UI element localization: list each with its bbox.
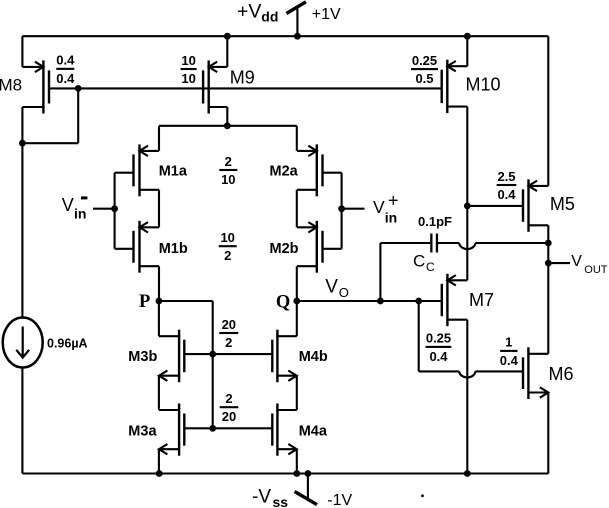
wire: M5 drain column to M6 drain <box>547 225 549 353</box>
wire: M4b source to M4a drain <box>296 376 298 410</box>
svg-text:0.25: 0.25 <box>426 331 451 346</box>
wire: M3b source to M3a drain <box>158 376 160 410</box>
wire: M3b-M4b gate line <box>184 353 272 355</box>
junction: M5 column / Cc right lead <box>545 240 552 247</box>
svg-text:dd: dd <box>261 8 278 24</box>
junction: bottom rail / M4a source <box>293 470 300 477</box>
wire: M1b drain to node P <box>158 266 160 301</box>
transistor M5 <box>527 179 529 231</box>
wire: Cc left lead and drop to Q line <box>380 242 430 244</box>
svg-text:V: V <box>62 195 74 215</box>
wire: Q column into M4b drain <box>296 301 298 336</box>
svg-text:1: 1 <box>505 335 512 350</box>
wire: M6 source to rail <box>547 393 549 474</box>
svg-text:M1b: M1b <box>159 241 188 257</box>
svg-text:M2b: M2b <box>270 241 299 257</box>
svg-text:ss: ss <box>273 494 289 508</box>
wire: P to mirror gate drop <box>159 300 213 302</box>
current source 0.96uA <box>3 318 43 368</box>
svg-text:0.4: 0.4 <box>429 349 448 364</box>
svg-text:M9: M9 <box>230 67 255 87</box>
junction: node Q <box>293 298 300 305</box>
svg-text:in: in <box>385 209 397 225</box>
wire: -Vss bottom rail <box>22 472 548 474</box>
svg-text:V: V <box>571 253 582 270</box>
wire: Vin+ lead <box>342 208 365 210</box>
svg-text:OUT: OUT <box>584 264 608 276</box>
junction: Vout tap <box>545 260 552 267</box>
svg-text:2: 2 <box>225 391 232 406</box>
svg-text:M3a: M3a <box>128 423 157 439</box>
svg-text:V: V <box>325 276 338 297</box>
wire: P column into M3b drain <box>158 301 160 336</box>
svg-text:+1V: +1V <box>312 6 341 23</box>
svg-text:10: 10 <box>181 53 195 68</box>
wire: M2a/M2b gate tie <box>341 173 343 249</box>
transistor M4b <box>276 330 278 383</box>
power -Vss supply stem with tick <box>307 474 309 500</box>
svg-text:2: 2 <box>225 154 232 169</box>
svg-text:M2a: M2a <box>270 163 299 179</box>
transistor M3a <box>178 404 180 456</box>
svg-text:20: 20 <box>222 409 236 424</box>
junction: top rail / +Vdd stem <box>294 33 301 40</box>
transistor M2b <box>316 221 318 273</box>
svg-text:0.4: 0.4 <box>497 187 516 202</box>
transistor M7 <box>446 274 448 326</box>
wire: left rail drop to M8 source <box>21 36 23 67</box>
svg-text:-V: -V <box>252 486 271 507</box>
svg-text:+V: +V <box>237 1 261 23</box>
wire: Q to M7 gate <box>297 300 442 302</box>
wire: M3a source to rail <box>158 449 160 473</box>
svg-text:0.5: 0.5 <box>415 71 433 86</box>
junction: gate line b / P drop <box>209 351 216 358</box>
junction: bottom rail / M3a source <box>156 470 163 477</box>
junction: top rail / M10 source <box>464 33 471 40</box>
wire: M4a source to rail <box>296 449 298 473</box>
svg-text:P: P <box>139 292 150 312</box>
wire: M9 drain drop <box>226 107 228 126</box>
svg-text:0.4: 0.4 <box>500 353 519 368</box>
junction: tail line / M9 drain <box>224 122 231 129</box>
wire: M3a-M4a gate line <box>184 427 272 429</box>
svg-text:M4b: M4b <box>299 349 328 365</box>
svg-text:0.1pF: 0.1pF <box>418 214 452 229</box>
svg-text:in: in <box>74 205 86 221</box>
junction: node P <box>156 298 163 305</box>
transistor M1a <box>138 144 140 196</box>
svg-text:10: 10 <box>220 230 234 245</box>
transistor M8 <box>42 60 44 113</box>
wire: Vout lead <box>548 262 570 264</box>
svg-text:Q: Q <box>276 293 290 313</box>
junction: Vin- tap <box>111 205 118 212</box>
svg-text:C: C <box>426 260 435 274</box>
wire: M2a drain to M2b source <box>296 190 298 228</box>
wire: common gate line M8-M9-M10 <box>49 87 442 89</box>
svg-text:0.96µA: 0.96µA <box>47 337 88 351</box>
junction: Vin+ tap <box>338 205 345 212</box>
wire: Cc right lead with hop over M10 column <box>438 242 459 244</box>
svg-text:20: 20 <box>222 317 236 332</box>
junction: bottom rail / M7 drain <box>464 470 471 477</box>
svg-text:+: + <box>388 191 399 211</box>
svg-text:V: V <box>373 197 385 217</box>
svg-text:M3b: M3b <box>128 349 157 365</box>
svg-text:M8: M8 <box>0 76 22 95</box>
svg-text:2.5: 2.5 <box>497 169 515 184</box>
svg-text:0.4: 0.4 <box>56 71 75 86</box>
wire: drop from Q line to M6 gate run <box>418 301 420 371</box>
svg-text:2: 2 <box>224 248 231 263</box>
svg-text:10: 10 <box>181 71 195 86</box>
svg-text:O: O <box>339 285 349 300</box>
wire: Vin- lead <box>93 208 115 210</box>
svg-text:M1a: M1a <box>159 163 188 179</box>
wire: M8 gate-drain diode connection <box>77 88 79 143</box>
svg-text:M4a: M4a <box>299 423 328 439</box>
transistor M9 <box>207 60 209 113</box>
capacitor Cc plates <box>430 234 432 253</box>
wire: M7 drain column down to rail <box>466 320 468 474</box>
stray ink dot <box>421 494 424 497</box>
power +Vdd supply stem with tick <box>296 6 298 37</box>
svg-text:0.25: 0.25 <box>412 53 437 68</box>
svg-text:M10: M10 <box>466 74 501 94</box>
junction: diode connection / left branch <box>19 140 26 147</box>
wire: M8 drain down to current source <box>21 107 23 318</box>
wire: M5 gate lead <box>467 205 523 207</box>
junction: top rail / M9 source <box>224 33 231 40</box>
svg-text:-1V: -1V <box>327 492 352 508</box>
svg-text:M5: M5 <box>550 194 575 214</box>
wire: M10 drain column down to M7 source <box>466 107 468 281</box>
wire: current source to bottom rail <box>21 367 23 473</box>
svg-text:2: 2 <box>225 335 232 350</box>
svg-text:0.4: 0.4 <box>56 53 75 68</box>
junction: gate line a / P drop <box>209 425 216 432</box>
svg-text:M6: M6 <box>549 364 574 384</box>
transistor M1b <box>138 221 140 273</box>
wire: right rail drop to M5 source <box>547 36 549 186</box>
junction: gate line / M8 diode drop <box>75 85 82 92</box>
wire: M10 source to rail <box>466 36 468 66</box>
transistor M2a <box>316 144 318 196</box>
wire: M9 source to top rail <box>226 36 228 67</box>
junction: bottom rail / -Vss stem <box>305 470 312 477</box>
wire: M6 gate run with hop over M7 drain column <box>419 370 460 372</box>
svg-text:10: 10 <box>221 172 235 187</box>
transistor M10 <box>446 60 448 113</box>
wire: +Vdd top rail <box>22 35 548 37</box>
junction: M10 column / M5 gate <box>464 203 471 210</box>
wire: M1a drain to M1b source <box>158 190 160 228</box>
transistor M4a <box>276 404 278 456</box>
junction: Cc drop / Q line <box>377 298 384 305</box>
wire: M1a/M1b gate tie <box>114 173 116 249</box>
wire: tail line feeding M1a/M2a sources <box>159 125 297 127</box>
junction: Q line / M6 gate drop <box>415 298 422 305</box>
transistor M6 <box>527 347 529 399</box>
svg-text:M7: M7 <box>469 290 494 310</box>
svg-text:C: C <box>413 252 425 271</box>
wire: M2b drain to node Q <box>296 266 298 301</box>
transistor M3b <box>178 330 180 383</box>
